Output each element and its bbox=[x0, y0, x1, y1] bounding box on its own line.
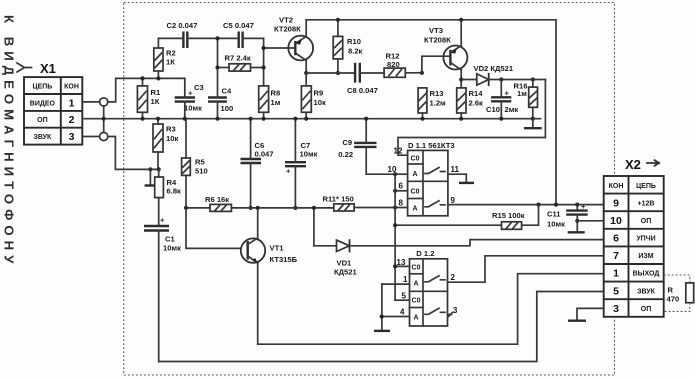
svg-text:A: A bbox=[413, 281, 418, 288]
svg-text:3: 3 bbox=[69, 131, 75, 143]
resistor R8 bbox=[259, 86, 281, 121]
svg-text:10к: 10к bbox=[166, 134, 178, 143]
wire X1 pin3 ЗВУК to contact bbox=[82, 136, 99, 138]
wire VD1 cathode to X2 pin6 УПЧИ bbox=[350, 240, 604, 246]
svg-text:1К: 1К bbox=[166, 58, 175, 67]
svg-text:ВЫХОД: ВЫХОД bbox=[633, 271, 660, 278]
wire X1 pin1 ВИДЕО to contact bbox=[82, 101, 99, 103]
svg-text:9: 9 bbox=[613, 197, 619, 209]
svg-text:A: A bbox=[412, 171, 417, 178]
resistor R6 bbox=[184, 195, 334, 211]
capacitor C1 electrolytic bbox=[144, 216, 181, 362]
svg-text:4: 4 bbox=[400, 308, 405, 317]
svg-text:+: + bbox=[286, 167, 291, 176]
resistor R4 bbox=[155, 169, 181, 226]
svg-text:КОН: КОН bbox=[64, 84, 79, 91]
pin 4 wire bbox=[382, 316, 410, 318]
svg-text:8: 8 bbox=[399, 199, 404, 208]
svg-text:11: 11 bbox=[451, 165, 460, 174]
resistor R5 bbox=[182, 119, 208, 208]
capacitor C8 bbox=[347, 63, 384, 95]
transistor VT1 bbox=[241, 206, 298, 264]
svg-text:3: 3 bbox=[453, 306, 458, 315]
transistor VT3 bbox=[422, 18, 468, 88]
svg-text:C10: C10 bbox=[486, 105, 500, 114]
svg-text:100: 100 bbox=[221, 104, 234, 113]
svg-text:C5 0.047: C5 0.047 bbox=[223, 21, 254, 30]
svg-text:ЗВУК: ЗВУК bbox=[33, 134, 52, 141]
pin 13 stub bbox=[395, 265, 409, 267]
svg-text:ОП: ОП bbox=[37, 117, 47, 124]
svg-text:ЦЕПЬ: ЦЕПЬ bbox=[636, 183, 656, 190]
svg-text:+: + bbox=[581, 202, 586, 211]
svg-text:R2: R2 bbox=[166, 49, 176, 58]
svg-text:1: 1 bbox=[69, 97, 75, 109]
svg-text:R7 2.4к: R7 2.4к bbox=[225, 54, 251, 63]
node contact circle pin3 bbox=[100, 132, 108, 140]
svg-text:R6 16к: R6 16к bbox=[205, 195, 229, 204]
svg-text:2: 2 bbox=[69, 114, 75, 126]
wire ВИДЕО contact to input node bbox=[108, 78, 185, 102]
svg-text:0.22: 0.22 bbox=[338, 150, 353, 159]
diode VD1 bbox=[312, 206, 358, 277]
svg-text:ОП: ОП bbox=[641, 218, 651, 225]
svg-text:R11* 150: R11* 150 bbox=[323, 195, 354, 204]
resistor R16 bbox=[514, 80, 538, 121]
resistor R10 bbox=[333, 18, 362, 75]
capacitor C6 bbox=[241, 117, 274, 210]
svg-text:10: 10 bbox=[388, 165, 397, 174]
svg-text:1м: 1м bbox=[271, 98, 281, 107]
svg-text:510: 510 bbox=[195, 167, 208, 176]
svg-text:R9: R9 bbox=[314, 89, 324, 98]
svg-text:C11: C11 bbox=[547, 210, 561, 219]
svg-text:R5: R5 bbox=[195, 158, 205, 167]
svg-text:1: 1 bbox=[403, 275, 408, 284]
pin 1 wire bbox=[382, 283, 410, 285]
connector X2 arrow bbox=[647, 160, 659, 166]
resistor R12 bbox=[384, 52, 424, 78]
svg-text:C8 0.047: C8 0.047 bbox=[347, 86, 378, 95]
svg-text:VD1: VD1 bbox=[337, 259, 353, 268]
resistor R 470 external dashed bbox=[664, 275, 694, 311]
svg-text:ИЗМ: ИЗМ bbox=[638, 253, 653, 260]
pin 6 stub bbox=[395, 190, 408, 192]
svg-text:+: + bbox=[160, 216, 165, 225]
svg-text:R10: R10 bbox=[347, 37, 361, 46]
wire contact shield riser bbox=[103, 106, 105, 132]
svg-text:5: 5 bbox=[402, 292, 407, 301]
resistor R11 bbox=[323, 195, 408, 212]
svg-text:9: 9 bbox=[451, 196, 456, 205]
svg-text:C0: C0 bbox=[412, 265, 421, 272]
resistor R2 bbox=[154, 38, 176, 80]
capacitor C11 electrolytic bbox=[547, 202, 588, 232]
svg-text:+: + bbox=[505, 89, 510, 98]
svg-text:ВИДЕО: ВИДЕО bbox=[30, 100, 56, 107]
svg-text:УПЧИ: УПЧИ bbox=[636, 236, 655, 243]
svg-text:R1: R1 bbox=[151, 88, 161, 97]
svg-text:X1: X1 bbox=[40, 61, 56, 76]
svg-text:КТ315Б: КТ315Б bbox=[270, 255, 298, 264]
svg-text:R14: R14 bbox=[469, 89, 484, 98]
svg-text:C0: C0 bbox=[411, 189, 420, 196]
svg-text:C4: C4 bbox=[222, 87, 232, 96]
svg-text:5: 5 bbox=[613, 285, 619, 297]
svg-text:10мк: 10мк bbox=[547, 220, 565, 229]
svg-text:12: 12 bbox=[394, 147, 403, 156]
svg-text:C3: C3 bbox=[194, 83, 204, 92]
svg-text:ЦЕПЬ: ЦЕПЬ bbox=[32, 84, 52, 91]
transistor VT2 bbox=[262, 16, 314, 76]
IC D1.2 bbox=[410, 249, 448, 326]
resistor R15 bbox=[393, 205, 539, 230]
svg-text:470: 470 bbox=[667, 295, 680, 304]
svg-text:3: 3 bbox=[613, 303, 619, 315]
svg-text:1м: 1м bbox=[517, 89, 527, 98]
wire ЗВУК bottom run to X2 pin5 bbox=[159, 292, 604, 362]
svg-text:КТ208К: КТ208К bbox=[424, 36, 451, 45]
ground at common rail right end bbox=[524, 119, 542, 129]
control bus vertical bbox=[394, 174, 396, 300]
wire VT1 emitter to X2 pin1 ВЫХОД bbox=[258, 263, 604, 344]
svg-text:C0: C0 bbox=[411, 156, 420, 163]
svg-text:R3: R3 bbox=[166, 125, 176, 134]
wire ЗВУК contact to R3/R4 junction bbox=[108, 137, 159, 170]
capacitor C10 electrolytic bbox=[486, 80, 518, 121]
svg-text:6: 6 bbox=[399, 182, 404, 191]
svg-text:ОП: ОП bbox=[641, 306, 651, 313]
svg-text:0.047: 0.047 bbox=[255, 150, 274, 159]
svg-text:8.2к: 8.2к bbox=[348, 47, 363, 56]
ground riser D1.2 bbox=[374, 284, 390, 331]
pin 10 stub bbox=[395, 173, 408, 175]
resistor R9 bbox=[301, 73, 326, 121]
capacitor C7 electrolytic bbox=[285, 117, 318, 210]
resistor R13 bbox=[418, 88, 446, 121]
svg-text:R13: R13 bbox=[430, 89, 444, 98]
svg-text:C9: C9 bbox=[342, 138, 352, 147]
resistor R14 bbox=[457, 88, 484, 121]
pin 9 output wire to X2 bbox=[448, 196, 604, 207]
svg-text:VT3: VT3 bbox=[429, 26, 443, 35]
resistor R3 bbox=[153, 117, 178, 172]
node junction shield/ОП bbox=[102, 117, 106, 121]
svg-text:+: + bbox=[188, 89, 193, 98]
svg-text:КТ208К: КТ208К bbox=[274, 25, 301, 34]
IC D1.1 561КТ3 bbox=[408, 141, 455, 216]
svg-text:R15 100к: R15 100к bbox=[492, 211, 525, 220]
svg-text:К ВИДЕОМАГНИТОФОНУ: К ВИДЕОМАГНИТОФОНУ bbox=[2, 15, 17, 268]
svg-text:6.8к: 6.8к bbox=[167, 187, 182, 196]
capacitor C5 bbox=[215, 21, 263, 86]
svg-text:D 1.1 561КТ3: D 1.1 561КТ3 bbox=[408, 141, 455, 150]
svg-text:VT1: VT1 bbox=[270, 244, 285, 253]
resistor R1 bbox=[137, 76, 161, 120]
svg-text:10мк: 10мк bbox=[300, 150, 318, 159]
wire X1 pin2 ОП common rail bbox=[82, 118, 540, 120]
svg-text:10к: 10к bbox=[314, 98, 326, 107]
capacitor C4 bbox=[208, 38, 233, 120]
svg-text:1.2м: 1.2м bbox=[430, 99, 447, 108]
svg-text:КОН: КОН bbox=[609, 183, 624, 190]
svg-text:VD2 КД521: VD2 КД521 bbox=[474, 64, 514, 73]
border dashed frame bbox=[124, 3, 615, 376]
svg-text:+12В: +12В bbox=[638, 200, 655, 207]
svg-text:7: 7 bbox=[613, 250, 619, 262]
wire VT2 collector node bbox=[306, 72, 355, 74]
svg-text:A: A bbox=[413, 315, 418, 322]
svg-text:R8: R8 bbox=[271, 89, 281, 98]
wire base riser to VT1 bbox=[186, 208, 241, 249]
pin 3 output stub bbox=[448, 306, 458, 317]
svg-text:10мк: 10мк bbox=[163, 244, 181, 253]
wire X2 pin10 ОП bbox=[577, 220, 603, 222]
svg-text:1: 1 bbox=[613, 268, 619, 280]
capacitor C2 bbox=[158, 21, 216, 48]
svg-text:VT2: VT2 bbox=[279, 16, 293, 25]
svg-text:2.6к: 2.6к bbox=[469, 99, 484, 108]
connector X2 table bbox=[604, 176, 664, 317]
svg-text:D 1.2: D 1.2 bbox=[416, 249, 434, 258]
ground X2 pin3 ОП bbox=[568, 308, 604, 320]
resistor R7 bbox=[215, 54, 265, 72]
svg-text:2мк: 2мк bbox=[505, 105, 519, 114]
svg-text:ЗВУК: ЗВУК bbox=[637, 288, 656, 295]
ground tap on ЗВУК wire bbox=[145, 167, 157, 185]
svg-text:1К: 1К bbox=[151, 97, 160, 106]
capacitor C9 bbox=[338, 117, 395, 175]
svg-text:X2: X2 bbox=[625, 157, 641, 172]
svg-text:13: 13 bbox=[397, 258, 406, 267]
svg-text:10: 10 bbox=[610, 215, 622, 227]
svg-text:6: 6 bbox=[613, 233, 619, 245]
capacitor C3 electrolytic bbox=[175, 78, 204, 120]
pin 11 output to ground bbox=[448, 165, 474, 183]
node contact circle pin1 bbox=[100, 98, 108, 106]
svg-text:A: A bbox=[412, 206, 417, 213]
wire +12V top rail bbox=[306, 20, 556, 205]
svg-text:R: R bbox=[668, 286, 674, 295]
svg-text:2: 2 bbox=[451, 273, 456, 282]
connector X1 table bbox=[24, 77, 82, 145]
pin 2 output to X2 pin7 ИЗМ bbox=[448, 256, 604, 282]
connector X1 plug symbol bbox=[17, 63, 32, 72]
pin 5 stub bbox=[395, 299, 409, 301]
svg-text:КД521: КД521 bbox=[334, 268, 357, 277]
svg-text:C0: C0 bbox=[412, 298, 421, 305]
diode VD2 bbox=[461, 64, 545, 85]
svg-text:C1: C1 bbox=[165, 235, 175, 244]
wire VD2 output to D1.1 pin12 bbox=[398, 80, 545, 156]
svg-text:C2 0.047: C2 0.047 bbox=[167, 21, 198, 30]
svg-text:10мк: 10мк bbox=[184, 104, 202, 113]
